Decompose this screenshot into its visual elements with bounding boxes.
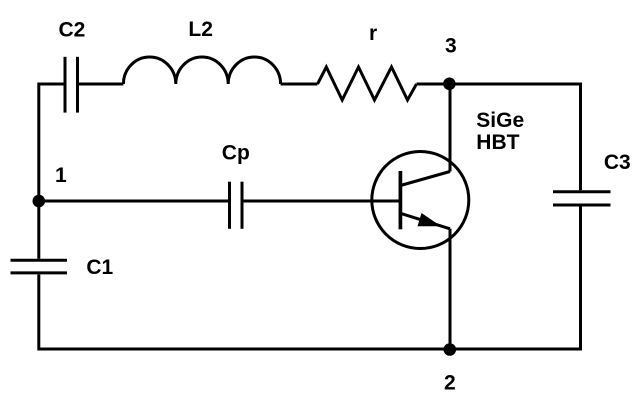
svg-text:C2: C2 bbox=[59, 18, 86, 41]
svg-text:L2: L2 bbox=[188, 18, 213, 41]
svg-text:C1: C1 bbox=[86, 256, 113, 279]
svg-text:Cp: Cp bbox=[222, 141, 250, 164]
svg-text:3: 3 bbox=[445, 34, 457, 57]
svg-text:1: 1 bbox=[55, 164, 67, 187]
svg-text:2: 2 bbox=[444, 371, 456, 394]
svg-text:C3: C3 bbox=[604, 151, 631, 174]
svg-text:HBT: HBT bbox=[476, 131, 519, 154]
svg-text:SiGe: SiGe bbox=[476, 109, 524, 132]
svg-text:r: r bbox=[369, 22, 377, 45]
